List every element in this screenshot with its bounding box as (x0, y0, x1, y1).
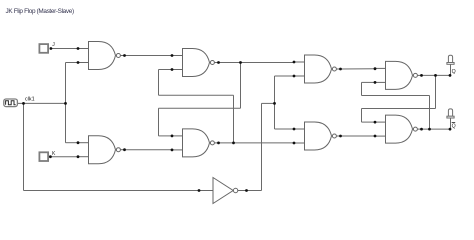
svg-text:K: K (52, 151, 56, 157)
svg-text:JK Flip Flop (Master-Slave): JK Flip Flop (Master-Slave) (6, 8, 74, 15)
svg-text:clk1: clk1 (25, 96, 35, 102)
svg-text:Q: Q (452, 124, 456, 130)
svg-text:J: J (52, 42, 55, 48)
svg-text:Q: Q (452, 69, 456, 75)
